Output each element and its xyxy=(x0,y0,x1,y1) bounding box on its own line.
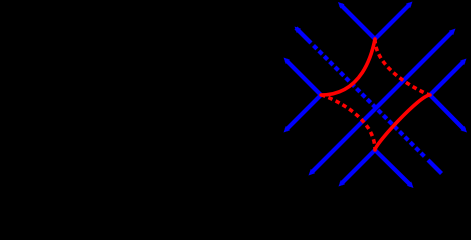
wire: right vertex up-right arm arrowhead xyxy=(460,59,467,66)
wire: solid ray upper arrowhead xyxy=(449,29,456,36)
wire: right vertex up-right arm xyxy=(430,61,464,95)
wire: right vertex down-right arm xyxy=(430,95,464,130)
wire: right vertex down-right arm arrowhead xyxy=(461,126,468,133)
wire: left vertex down-left arm arrowhead xyxy=(284,126,291,133)
curve: red solid hyperbola top-left xyxy=(321,39,375,95)
wire: top vertex up-right arm xyxy=(375,4,410,39)
curve: red solid hyperbola bottom-right xyxy=(375,95,430,150)
wire: top vertex up-left arm xyxy=(341,5,375,39)
wire: left vertex down-left arm xyxy=(286,95,321,130)
wire: dashed null ray end cap xyxy=(428,160,442,174)
wire: top vertex up-right arm arrowhead xyxy=(406,2,413,9)
wire: solid ray lower arrowhead xyxy=(309,169,316,176)
wire: left vertex up-left arm xyxy=(286,60,321,95)
wire: dashed null ray start cap xyxy=(296,28,311,43)
curve: red dashed hyperbola top-right xyxy=(375,39,430,95)
wire: long solid null ray xyxy=(312,32,452,172)
curve: red dashed hyperbola bottom-left xyxy=(321,95,375,150)
wire: top vertex up-left arm arrowhead xyxy=(338,2,345,9)
wire: dashed null ray body xyxy=(314,46,426,158)
spacetime diagram: causal-diamond lattice, blue null lines / horizons, red hyperbolic curves xyxy=(0,0,471,191)
wire: left vertex up-left arm arrowhead xyxy=(284,58,291,65)
wire: bottom vertex down-right arm xyxy=(375,150,411,185)
wire: bottom vertex down-left arm arrowhead xyxy=(339,180,346,187)
wire: bottom vertex down-left arm xyxy=(341,150,375,184)
wire: dashed ray upper arrowhead xyxy=(295,27,302,34)
wire: bottom vertex down-right arm arrowhead xyxy=(407,182,414,189)
